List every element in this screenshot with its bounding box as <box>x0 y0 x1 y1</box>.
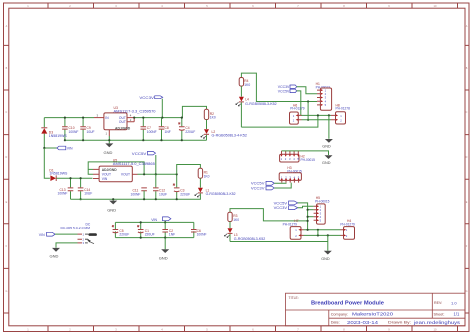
svg-text:Date:: Date: <box>331 321 340 325</box>
svg-text:ADJ/GND: ADJ/GND <box>102 168 117 172</box>
resistor R3 <box>228 212 239 222</box>
svg-text:10UF: 10UF <box>84 192 92 196</box>
svg-text:TITLE:: TITLE: <box>289 296 299 300</box>
node VIN label cap bank <box>151 217 171 224</box>
svg-text:10UF: 10UF <box>159 192 167 196</box>
ground below U5 <box>107 198 117 213</box>
regulator U5 AMS1117-5.0 <box>93 159 155 182</box>
node VCC5V label lower regulator <box>132 151 157 175</box>
wire feed R1 <box>177 165 201 175</box>
diode D1 <box>49 168 92 181</box>
svg-text:100NF: 100NF <box>147 130 157 134</box>
svg-text:AMS1117-3.3_C359570: AMS1117-3.3_C359570 <box>114 109 156 113</box>
resistor R2 <box>204 109 216 119</box>
LED L3 <box>224 222 265 242</box>
node VCC3V label H5 <box>274 206 314 210</box>
svg-text:DC-005 5.0-2.0 MM: DC-005 5.0-2.0 MM <box>61 226 91 230</box>
title block <box>286 293 466 326</box>
svg-text:Company:: Company: <box>331 312 348 316</box>
svg-text:PH-00015: PH-00015 <box>301 158 316 162</box>
svg-text:1/1: 1/1 <box>454 312 460 317</box>
svg-text:jean.redelinghuys: jean.redelinghuys <box>413 320 460 325</box>
connector DC DC-005 jack <box>61 222 97 245</box>
wire bottom rail 5V <box>71 198 201 200</box>
svg-text:VCC3V: VCC3V <box>274 206 288 210</box>
connector H2 PH-00015 <box>280 151 315 162</box>
svg-text:G-RGB0508L3-K52: G-RGB0508L3-K52 <box>245 102 277 106</box>
svg-text:GND: GND <box>159 255 168 260</box>
svg-text:220UF: 220UF <box>180 192 190 196</box>
node VCC5V label H6 <box>278 89 331 115</box>
svg-text:1N5819WS: 1N5819WS <box>49 172 68 176</box>
LED L1 <box>195 178 236 199</box>
capacitor C10 <box>62 117 78 142</box>
wire VIN feed lower <box>44 148 50 178</box>
connector H3 PH-00015 <box>279 166 302 183</box>
svg-text:L4: L4 <box>245 97 249 101</box>
capacitor C3 polarized <box>173 173 190 200</box>
node VIN label upper <box>43 146 73 150</box>
node VCC5V label H5 <box>274 201 308 230</box>
svg-text:220UF: 220UF <box>185 130 195 134</box>
svg-text:VCC5V: VCC5V <box>251 182 265 186</box>
ground below cap bank <box>159 238 170 261</box>
svg-text:1K0: 1K0 <box>210 116 216 120</box>
svg-text:PH-01278: PH-01278 <box>336 107 351 111</box>
wire LED L3 return <box>230 241 328 243</box>
resistor R1 <box>198 168 209 178</box>
svg-text:ADJ/GND: ADJ/GND <box>115 126 131 130</box>
svg-text:G: G <box>466 290 468 293</box>
svg-text:MakersIoT2020: MakersIoT2020 <box>352 312 394 317</box>
capacitor C2 <box>162 222 175 238</box>
wire H7 to H4 row1 <box>304 229 341 231</box>
connector H1 PH-00013 <box>316 82 332 110</box>
svg-text:VIN: VIN <box>102 177 108 181</box>
svg-text:100NF: 100NF <box>131 192 141 196</box>
svg-text:100NF: 100NF <box>197 233 207 237</box>
svg-text:GND: GND <box>322 161 331 165</box>
svg-text:PH-01279: PH-01279 <box>283 222 298 226</box>
svg-text:2023-03-14: 2023-03-14 <box>347 320 379 325</box>
wire R3 feed <box>230 209 309 222</box>
capacitor C12 <box>153 174 167 200</box>
svg-text:D: D <box>6 156 8 159</box>
wire H5 pin4 stub <box>307 216 314 218</box>
ground H8 line <box>322 114 333 148</box>
ground H2 <box>282 151 333 165</box>
capacitor C11 <box>131 173 147 200</box>
capacitor C4 polarized <box>178 117 195 142</box>
wire R4 feed <box>241 73 317 101</box>
svg-text:VCC5V: VCC5V <box>278 89 290 93</box>
ground below jack <box>50 243 78 259</box>
svg-text:REV:: REV: <box>434 301 442 305</box>
capacitor C9 <box>80 117 94 142</box>
svg-text:1.0: 1.0 <box>451 300 457 305</box>
wire ADJ loop U5 <box>88 162 144 174</box>
capacitor C7 <box>141 117 157 142</box>
wire cap bank rails <box>115 222 193 237</box>
svg-text:1K0: 1K0 <box>204 174 210 178</box>
svg-text:OUT: OUT <box>119 120 126 124</box>
junction R4 line <box>307 100 309 102</box>
wire bottom rail 3.3V <box>65 118 207 141</box>
svg-text:C: C <box>466 111 468 114</box>
svg-text:VCC5V: VCC5V <box>274 201 288 205</box>
svg-text:G-RGB0508L3-K52: G-RGB0508L3-K52 <box>234 237 266 241</box>
capacitor C8 <box>159 118 171 142</box>
capacitor C14 <box>78 177 92 200</box>
svg-text:PH-01279: PH-01279 <box>290 107 305 111</box>
svg-text:GND: GND <box>107 208 116 213</box>
wire output rail 3.3V <box>134 106 206 117</box>
LED L2 <box>201 120 247 141</box>
svg-text:G-RGB0508L3-4-K52: G-RGB0508L3-4-K52 <box>212 133 248 137</box>
wire H7 to H4 row2 <box>304 234 341 236</box>
svg-text:GND: GND <box>321 257 330 261</box>
ground H7 H4 <box>321 235 332 261</box>
wire row link <box>317 230 319 236</box>
node VIN label jack <box>39 232 78 237</box>
svg-text:VIN: VIN <box>67 147 73 151</box>
capacitor C6 <box>191 229 207 237</box>
capacitor C1 polarized <box>137 221 154 238</box>
connector H8 PH-01278 <box>331 103 350 124</box>
svg-text:PH-01279: PH-01279 <box>340 222 355 226</box>
node VCC3V label H3 <box>251 183 291 191</box>
svg-text:1NF: 1NF <box>165 130 171 134</box>
svg-text:Drawn By:: Drawn By: <box>388 321 411 325</box>
svg-text:VCC3V: VCC3V <box>251 186 265 190</box>
svg-text:1NF: 1NF <box>169 233 175 237</box>
diode D3 <box>41 118 67 148</box>
wire H1 to H6 pin2 <box>307 102 309 121</box>
svg-text:1K0: 1K0 <box>244 83 250 87</box>
node VCC3V label H1 <box>278 85 317 94</box>
svg-text:VCC5V: VCC5V <box>132 152 147 156</box>
svg-text:220UF: 220UF <box>145 233 155 237</box>
connector H6 PH-01279 <box>290 103 305 124</box>
svg-text:Breadboard Power Module: Breadboard Power Module <box>311 301 384 307</box>
svg-text:VCC3V: VCC3V <box>139 96 154 100</box>
ground below U3 <box>104 136 114 155</box>
svg-text:220UF: 220UF <box>119 233 129 237</box>
svg-text:10UF: 10UF <box>87 130 95 134</box>
svg-text:1N5819WS: 1N5819WS <box>49 134 68 138</box>
svg-text:G-RGB0508L3-K52: G-RGB0508L3-K52 <box>206 192 236 196</box>
LED L4 <box>236 86 277 127</box>
wire H5 pin2 stub <box>307 209 314 211</box>
svg-text:C: C <box>6 111 8 114</box>
wire output rail 5V <box>138 173 177 175</box>
svg-text:GND: GND <box>50 254 59 259</box>
wire input rail 3.3V <box>44 117 94 119</box>
wire H6 pin2 to H8 pin2 <box>302 119 332 121</box>
node VCC3V label top <box>139 96 163 119</box>
resistor R4 <box>239 78 250 88</box>
svg-text:GND: GND <box>322 144 331 148</box>
svg-text:G: G <box>5 290 7 293</box>
svg-text:GND: GND <box>104 150 113 155</box>
svg-text:D: D <box>466 156 468 159</box>
node VCC5V label H3 <box>251 181 286 185</box>
capacitor C5 polarized <box>112 225 129 236</box>
svg-text:VIN: VIN <box>151 218 157 222</box>
connector H5 PH-00015 <box>314 196 330 224</box>
svg-text:VIN: VIN <box>39 233 45 237</box>
connector H4 PH-01279 <box>340 219 355 239</box>
svg-text:PH-00015: PH-00015 <box>315 199 330 203</box>
svg-text:AMS1117-5.0_C359865: AMS1117-5.0_C359865 <box>113 162 155 166</box>
junction output pins U3 <box>133 117 135 119</box>
regulator U3 AMS1117-3.3 <box>94 106 156 136</box>
svg-text:1K0: 1K0 <box>233 218 239 222</box>
capacitor C13 <box>58 177 74 199</box>
connector H7 PH-01279 <box>283 219 304 239</box>
svg-text:Sheet:: Sheet: <box>434 312 445 316</box>
svg-text:100NF: 100NF <box>69 130 79 134</box>
wire LED L4 return to H8 <box>241 114 319 127</box>
svg-text:100NF: 100NF <box>58 192 68 196</box>
svg-text:VOUT: VOUT <box>121 173 130 177</box>
